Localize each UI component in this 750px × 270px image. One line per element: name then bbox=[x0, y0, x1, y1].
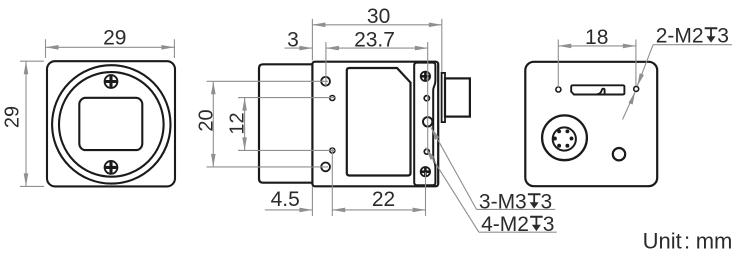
leader 2-M2 lower segment bbox=[623, 92, 636, 120]
arrows dim 29 left bbox=[24, 61, 29, 74]
dim 29 top: line bbox=[46, 46, 175, 48]
svg-text:mm: mm bbox=[696, 229, 733, 254]
mounting hole M3 bottom-left bbox=[321, 163, 330, 172]
arrow leader 3-M3 bbox=[429, 126, 439, 140]
dim 20: extension lines bbox=[207, 81, 329, 167]
svg-text:4.5: 4.5 bbox=[271, 188, 300, 211]
dim 29 top: extension lines bbox=[46, 39, 175, 58]
svg-text:3: 3 bbox=[287, 28, 299, 51]
svg-text:22: 22 bbox=[372, 188, 395, 211]
lens mount inner circle bbox=[59, 72, 164, 177]
dim 29 left: line bbox=[25, 61, 27, 186]
svg-text:2-M2: 2-M2 bbox=[656, 25, 704, 48]
arrows dim 23.7 bbox=[326, 46, 339, 51]
sensor window bbox=[79, 98, 142, 150]
lens mount outer circle bbox=[52, 65, 170, 183]
back body outline bbox=[525, 62, 657, 186]
svg-text:29: 29 bbox=[2, 106, 24, 128]
plate screw top bbox=[421, 72, 430, 81]
depth symbol in 2-M2 label bbox=[705, 27, 718, 42]
arrows dim 18 bbox=[558, 44, 571, 49]
arrowheads bbox=[24, 23, 644, 213]
rear cover plate bbox=[414, 63, 435, 186]
arrow leader 2-M2 upper bbox=[635, 73, 644, 87]
central panel with chamfer bbox=[347, 68, 411, 176]
dim 12: line bbox=[244, 98, 246, 151]
dim 18: extension lines bbox=[558, 40, 636, 88]
svg-text:20: 20 bbox=[196, 109, 218, 131]
svg-text::: : bbox=[684, 229, 690, 254]
arrows dim 29 top bbox=[46, 45, 59, 50]
plate hole M3 middle bbox=[423, 117, 432, 126]
arrows dim 22 bbox=[332, 208, 345, 213]
arrow leader 2-M2 lower bbox=[628, 91, 637, 105]
label underline 3-M3 bbox=[477, 208, 556, 210]
dim 30: line bbox=[312, 24, 441, 26]
label underline 2-M2 bbox=[653, 44, 732, 46]
dim 4.5/22: extension lines bottom bbox=[312, 148, 425, 217]
plate screw bottom bbox=[421, 167, 430, 176]
front screw bottom bbox=[105, 161, 118, 174]
leader 3-M3 bbox=[431, 127, 477, 209]
connector pins bbox=[553, 129, 574, 147]
plate hole M2 top bbox=[424, 96, 429, 101]
front body outline bbox=[47, 61, 175, 186]
connector plug bbox=[445, 78, 470, 116]
svg-text:29: 29 bbox=[103, 27, 126, 50]
arrows dim 12 bbox=[242, 98, 247, 111]
back screw hole right bbox=[634, 86, 639, 91]
back screw hole left bbox=[556, 87, 561, 92]
dim 3: line bbox=[285, 47, 313, 49]
depth symbol in 4-M2 label bbox=[530, 216, 543, 231]
svg-text:3: 3 bbox=[541, 191, 553, 214]
dim 23.7: line bbox=[326, 47, 428, 49]
plate hole M2 bottom bbox=[424, 149, 429, 154]
arrow dim 3 bbox=[299, 46, 312, 51]
svg-text:3: 3 bbox=[717, 25, 729, 48]
dim 4.5: line bbox=[265, 209, 313, 211]
svg-text:18: 18 bbox=[585, 26, 608, 49]
leader 4-M2 bbox=[426, 148, 479, 233]
label underline 4-M2 bbox=[479, 231, 557, 233]
arrow dim 4.5 bbox=[299, 208, 312, 213]
front screw top bbox=[105, 75, 118, 88]
svg-text:12: 12 bbox=[227, 112, 249, 134]
svg-text:4-M2: 4-M2 bbox=[481, 213, 529, 236]
LED indicator bbox=[613, 148, 625, 160]
dim 12: extension lines bbox=[238, 98, 335, 151]
SD slot notch bbox=[597, 89, 605, 95]
dim 18: line bbox=[558, 45, 636, 47]
power connector inner bbox=[553, 127, 576, 150]
dim 22: line bbox=[332, 209, 425, 211]
dim 29 left: extension lines bbox=[20, 61, 44, 186]
lens barrel bbox=[259, 64, 313, 182]
mounting hole M2 bottom-left bbox=[330, 148, 335, 153]
mounting hole M3 top-left bbox=[321, 77, 330, 86]
dim 30: extension lines bbox=[312, 19, 441, 72]
SD card slot bbox=[571, 85, 624, 94]
arrow leader 4-M2 bbox=[424, 146, 435, 159]
arrows dim 20 bbox=[211, 81, 216, 94]
connector flange bbox=[442, 73, 445, 122]
svg-text:3-M3: 3-M3 bbox=[479, 191, 527, 214]
depth symbol in 3-M3 label bbox=[528, 193, 541, 208]
unit note bbox=[643, 229, 733, 254]
arrows dim 30 bbox=[312, 23, 325, 28]
side body outline bbox=[312, 62, 438, 187]
svg-text:23.7: 23.7 bbox=[354, 28, 395, 51]
svg-text:3: 3 bbox=[543, 213, 555, 236]
leader 2-M2 upper segment bbox=[637, 45, 653, 86]
dim 20: line bbox=[212, 81, 214, 167]
power connector outer bbox=[542, 115, 587, 160]
svg-text:Unit: Unit bbox=[643, 229, 682, 254]
mounting hole M2 top-left bbox=[330, 96, 335, 101]
svg-text:30: 30 bbox=[367, 5, 390, 28]
dim 23.7: extension lines bbox=[326, 42, 428, 154]
